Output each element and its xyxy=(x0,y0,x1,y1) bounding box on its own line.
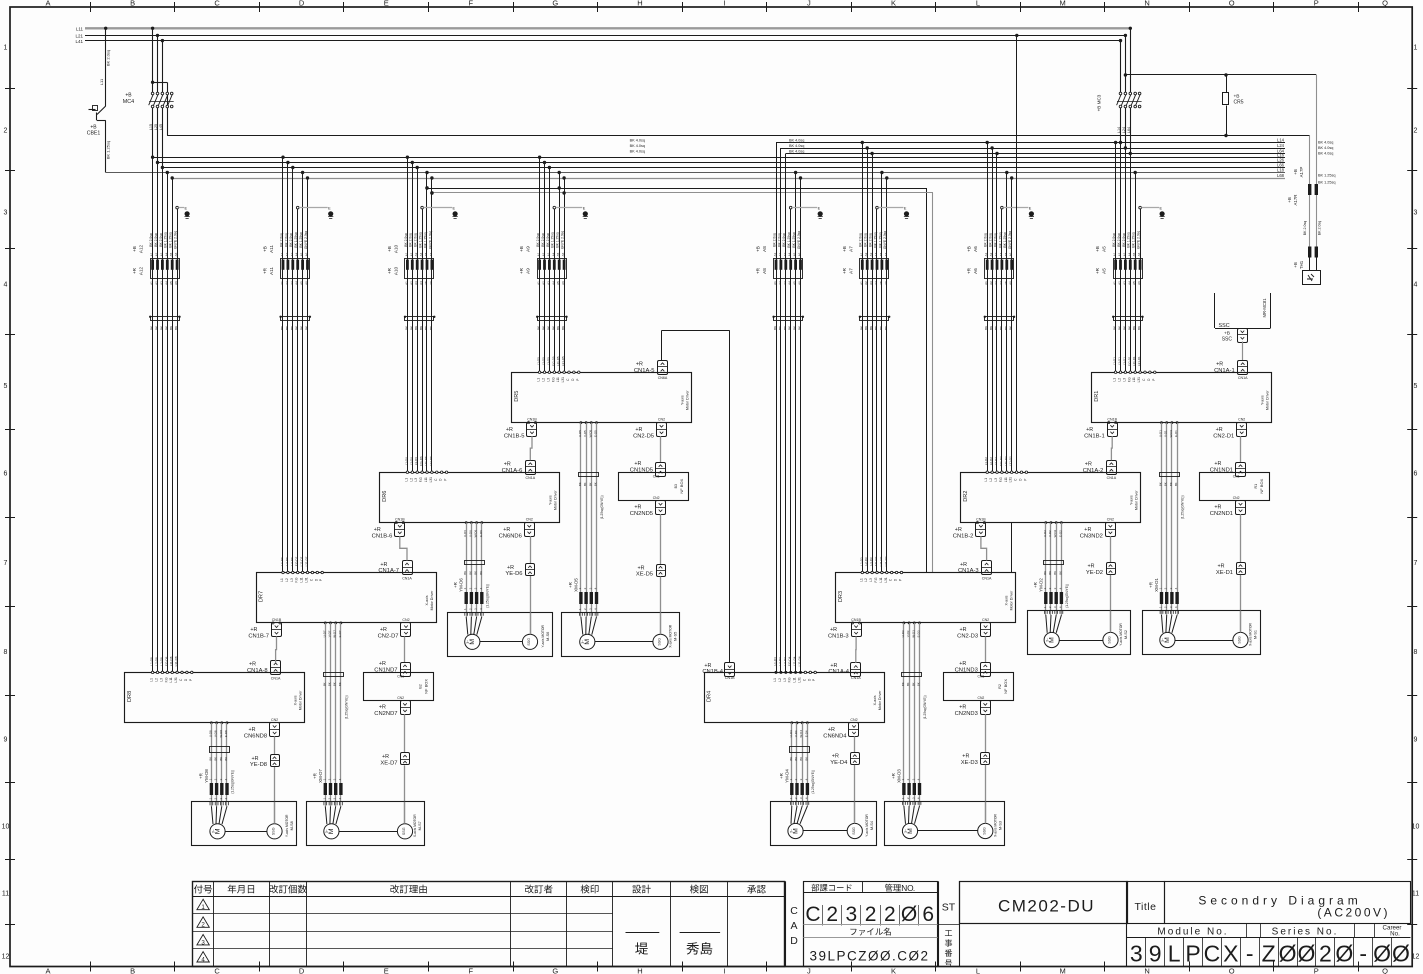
DR5 input pins xyxy=(538,371,540,373)
svg-text:BK 2.0sq: BK 2.0sq xyxy=(1318,221,1322,236)
svg-text:BK: BK xyxy=(1169,482,1173,486)
svg-text:L3-D7: L3-D7 xyxy=(290,557,294,566)
chain wire xyxy=(530,436,532,460)
chain wire xyxy=(400,536,407,560)
svg-text:L2: L2 xyxy=(285,578,289,582)
svg-text:BK: BK xyxy=(1164,482,1168,486)
svg-text:BK: BK xyxy=(474,571,478,575)
terminal strip A7 xyxy=(860,317,889,321)
svg-text:L1: L1 xyxy=(773,678,777,682)
svg-text:L45: L45 xyxy=(159,124,163,130)
svg-text:(1.25sq(GN/YE)): (1.25sq(GN/YE)) xyxy=(600,495,604,519)
svg-text:L3: L3 xyxy=(1122,378,1126,382)
svg-text:Motor Driver: Motor Driver xyxy=(430,590,434,611)
encoder lead-in M-S8 xyxy=(274,802,276,824)
svg-text:BK: BK xyxy=(578,482,582,486)
svg-text:BK 2.0sq: BK 2.0sq xyxy=(1112,233,1116,247)
svg-text:C: C xyxy=(790,905,798,917)
svg-text:E: E xyxy=(384,0,389,8)
svg-text:L11-D3: L11-D3 xyxy=(879,556,883,566)
svg-text:A1: A1 xyxy=(404,281,408,285)
svg-text:A4: A4 xyxy=(1127,252,1131,256)
svg-text:+R: +R xyxy=(506,427,513,433)
connector CN2ND3 xyxy=(981,701,991,715)
svg-text:BK 1.25sq: BK 1.25sq xyxy=(792,232,796,247)
svg-text:R1: R1 xyxy=(1254,484,1258,489)
svg-text:A5: A5 xyxy=(424,252,428,256)
motor lead-in M-S7 xyxy=(325,806,327,824)
svg-text:CN1B-2: CN1B-2 xyxy=(953,533,974,539)
svg-text:9: 9 xyxy=(1149,941,1162,967)
svg-text:L31: L31 xyxy=(884,577,888,583)
svg-text:BK: BK xyxy=(1053,571,1057,575)
svg-text:+R: +R xyxy=(249,727,256,733)
svg-text:SSG: SSG xyxy=(1108,636,1112,644)
DR1 connector CN1A xyxy=(1238,361,1248,375)
svg-text:E: E xyxy=(328,207,331,211)
title label cell xyxy=(1127,882,1165,924)
svg-text:L31: L31 xyxy=(429,477,433,483)
svg-text:A6: A6 xyxy=(561,281,565,285)
CAD code cell xyxy=(804,882,938,967)
earth symbol A10 xyxy=(453,211,458,216)
svg-text:A3: A3 xyxy=(290,252,294,256)
terminal block D4 xyxy=(790,747,810,753)
svg-text:+R: +R xyxy=(380,627,387,633)
svg-text:+R: +R xyxy=(1216,427,1223,433)
svg-text:A1: A1 xyxy=(859,252,863,256)
svg-text:CN1A: CN1A xyxy=(1238,376,1248,380)
svg-text:CN1B-7: CN1B-7 xyxy=(248,634,269,640)
svg-text:XM-D1: XM-D1 xyxy=(1154,578,1159,592)
svg-text:A1: A1 xyxy=(404,252,408,256)
svg-text:Ø: Ø xyxy=(1392,941,1410,967)
svg-text:CN2: CN2 xyxy=(658,418,665,422)
motor connector D2 xyxy=(1044,592,1047,604)
svg-text:A5: A5 xyxy=(556,252,560,256)
svg-text:L21: L21 xyxy=(75,34,83,39)
earth symbol A5 xyxy=(1160,211,1165,216)
svg-text:A5: A5 xyxy=(300,281,304,285)
svg-text:BK: BK xyxy=(901,682,905,686)
line L1x bus xyxy=(167,135,1310,137)
svg-text:+B: +B xyxy=(967,246,972,252)
svg-text:CN1A-8: CN1A-8 xyxy=(247,668,268,674)
earth node A12 xyxy=(176,206,179,209)
wire CN2 chain to E connector xyxy=(1110,536,1112,562)
svg-text:BK 1.25sq: BK 1.25sq xyxy=(294,232,298,247)
grid row ticks xyxy=(5,88,15,90)
svg-text:L1: L1 xyxy=(404,478,408,482)
svg-text:X-axis: X-axis xyxy=(425,595,429,605)
svg-text:BK: BK xyxy=(155,326,159,330)
svg-text:BK 1.25sq: BK 1.25sq xyxy=(1003,232,1007,247)
svg-text:+B: +B xyxy=(125,93,132,99)
svg-text:A6: A6 xyxy=(1137,252,1141,256)
svg-text:E-D3: E-D3 xyxy=(917,630,921,637)
svg-text:U-D6: U-D6 xyxy=(463,530,467,537)
svg-text:CN1B-1: CN1B-1 xyxy=(1084,433,1105,439)
svg-text:12: 12 xyxy=(1412,954,1420,961)
svg-text:D: D xyxy=(299,967,305,974)
revision table headers xyxy=(194,885,203,894)
encoder SSG M-S2 xyxy=(1103,632,1118,647)
svg-text:+R: +R xyxy=(198,773,203,779)
svg-text:+R: +R xyxy=(1214,505,1221,511)
svg-text:+R: +R xyxy=(312,773,317,779)
svg-text:L11: L11 xyxy=(1132,377,1136,382)
svg-text:A3: A3 xyxy=(159,252,163,256)
svg-text:BK: BK xyxy=(280,326,284,330)
svg-text:+R: +R xyxy=(249,662,256,668)
svg-text:3: 3 xyxy=(1414,210,1418,217)
motor M M-S6 xyxy=(465,634,480,649)
svg-text:A1: A1 xyxy=(280,281,284,285)
svg-text:10: 10 xyxy=(2,824,10,831)
svg-text:U-D7: U-D7 xyxy=(322,630,326,637)
DR6 bottom connectors xyxy=(395,522,397,524)
bus line L16 xyxy=(153,157,1285,159)
svg-text:+R: +R xyxy=(504,462,511,468)
svg-text:A3: A3 xyxy=(290,281,294,285)
svg-text:BK 1.25sq: BK 1.25sq xyxy=(787,232,791,247)
svg-text:L3-D8: L3-D8 xyxy=(159,657,163,666)
svg-text:Y-axis MOTOR: Y-axis MOTOR xyxy=(1119,623,1123,646)
motor lead-in M-S1 xyxy=(1162,615,1163,633)
svg-text:M: M xyxy=(1164,637,1171,643)
svg-text:M: M xyxy=(1059,967,1065,974)
svg-text:YE-D6: YE-D6 xyxy=(505,571,522,577)
svg-text:2: 2 xyxy=(826,903,838,926)
svg-text:A2: A2 xyxy=(864,252,868,256)
svg-text:A6: A6 xyxy=(798,281,802,285)
svg-text:A1: A1 xyxy=(773,281,777,285)
svg-text:-: - xyxy=(1359,941,1367,967)
svg-text:BK: BK xyxy=(1048,571,1052,575)
DR5 bottom connectors xyxy=(527,422,529,424)
svg-text:Motor Driver: Motor Driver xyxy=(1266,390,1270,411)
svg-text:W-D2: W-D2 xyxy=(1053,529,1057,537)
svg-text:+R: +R xyxy=(1095,267,1100,274)
encoder SSG M-S8 xyxy=(267,824,282,839)
svg-text:A: A xyxy=(45,0,50,8)
svg-text:-: - xyxy=(1246,941,1254,967)
svg-text:Ø: Ø xyxy=(1335,941,1353,967)
svg-text:BK: BK xyxy=(414,326,418,330)
svg-text:BK 2.0sq: BK 2.0sq xyxy=(536,233,540,247)
svg-text:+B MC3: +B MC3 xyxy=(1097,94,1102,111)
svg-text:M-S4: M-S4 xyxy=(870,821,874,830)
wire to encoder SSG xyxy=(660,577,662,635)
svg-text:A6: A6 xyxy=(561,252,565,256)
svg-text:G: G xyxy=(552,967,558,974)
svg-text:+R: +R xyxy=(1214,461,1221,467)
title block revision table xyxy=(193,882,785,967)
earth symbol A7 xyxy=(904,211,909,216)
svg-text:BK: BK xyxy=(322,682,326,686)
svg-text:CN6ND4: CN6ND4 xyxy=(823,734,847,740)
svg-text:L3: L3 xyxy=(546,378,550,382)
svg-text:A2: A2 xyxy=(409,252,413,256)
svg-text:A4: A4 xyxy=(551,252,555,256)
bus line L14 xyxy=(776,142,1285,144)
svg-text:P: P xyxy=(444,479,448,481)
svg-text:A4: A4 xyxy=(551,281,555,285)
svg-text:+R: +R xyxy=(959,705,966,711)
svg-text:F.G: F.G xyxy=(164,677,168,682)
earth symbol A9 xyxy=(583,211,588,216)
svg-text:CN6A: CN6A xyxy=(658,376,668,380)
svg-text:BK 2.0sq: BK 2.0sq xyxy=(864,233,868,247)
svg-text:BK 4.0sq: BK 4.0sq xyxy=(630,139,645,143)
wire M to SSG M-S1 xyxy=(1175,640,1233,642)
svg-text:TH1: TH1 xyxy=(1299,260,1304,269)
svg-text:+R: +R xyxy=(967,267,972,274)
motor box M-S7 xyxy=(307,802,425,846)
bus line L18 xyxy=(106,172,1285,174)
svg-text:+R: +R xyxy=(252,756,259,762)
svg-text:W-D6: W-D6 xyxy=(474,529,478,537)
svg-text:L68: L68 xyxy=(1277,173,1285,178)
svg-text:CN1B: CN1B xyxy=(725,676,735,680)
earth node A5 xyxy=(1139,206,1142,209)
svg-text:B3: B3 xyxy=(674,484,678,488)
DR4 connector CN1A xyxy=(725,663,735,677)
svg-text:L31-D2: L31-D2 xyxy=(1009,456,1013,466)
svg-text:C: C xyxy=(805,903,820,926)
feed bundle A9 wires xyxy=(538,156,541,159)
feed bundle A12 wires xyxy=(151,156,154,159)
svg-text:3~: 3~ xyxy=(466,640,470,644)
svg-text:2: 2 xyxy=(1414,128,1418,135)
svg-text:Q: Q xyxy=(1382,967,1388,974)
svg-text:A5: A5 xyxy=(793,252,797,256)
motor driver DR1 xyxy=(1092,373,1272,423)
connector CN2ND1 xyxy=(1236,501,1246,515)
svg-text:+B: +B xyxy=(756,246,761,252)
svg-text:CN1B-3: CN1B-3 xyxy=(828,634,849,640)
svg-text:P: P xyxy=(1314,967,1319,974)
svg-text:BK: BK xyxy=(551,326,555,330)
svg-text:BK: BK xyxy=(917,682,921,686)
svg-text:L25: L25 xyxy=(154,124,158,130)
svg-text:BK 2.0sq: BK 2.0sq xyxy=(106,50,111,66)
svg-text:M: M xyxy=(214,828,221,834)
DR7 bottom connectors xyxy=(272,622,274,624)
earth symbol A6 xyxy=(1029,211,1034,216)
svg-text:A2: A2 xyxy=(1118,281,1122,285)
svg-text:M: M xyxy=(469,639,476,645)
svg-text:BK: BK xyxy=(793,326,797,330)
svg-text:V-D1: V-D1 xyxy=(1164,430,1168,437)
svg-text:Z: Z xyxy=(1262,941,1276,967)
svg-text:K: K xyxy=(891,967,896,974)
svg-text:Ø: Ø xyxy=(1279,941,1297,967)
svg-text:BK 2.0sq: BK 2.0sq xyxy=(772,233,776,247)
svg-text:A3: A3 xyxy=(159,281,163,285)
svg-text:+R: +R xyxy=(380,562,387,568)
svg-text:BK 1.25sq: BK 1.25sq xyxy=(106,141,111,159)
svg-text:L11-D1: L11-D1 xyxy=(1132,356,1136,366)
svg-text:CN2: CN2 xyxy=(982,618,989,622)
svg-text:+R: +R xyxy=(828,727,835,733)
svg-text:L41: L41 xyxy=(75,39,83,44)
motor lead-in M-S6 xyxy=(466,617,468,635)
svg-text:U-D4: U-D4 xyxy=(789,730,793,737)
noise filter NF BOX R1 xyxy=(1200,473,1270,501)
svg-text:BK 1.25sq: BK 1.25sq xyxy=(1318,174,1336,178)
wire M to SSG M-S3 xyxy=(918,830,978,832)
svg-text:BK: BK xyxy=(989,326,993,330)
svg-text:Motor Driver: Motor Driver xyxy=(686,390,690,411)
svg-text:L1-D5: L1-D5 xyxy=(537,357,541,366)
svg-text:A4: A4 xyxy=(164,281,168,285)
svg-text:L24: L24 xyxy=(1122,127,1126,133)
svg-text:CN2ND5: CN2ND5 xyxy=(630,511,653,517)
svg-text:BK: BK xyxy=(419,326,423,330)
svg-text:A11: A11 xyxy=(269,267,274,275)
svg-text:GNYE 2.0sq: GNYE 2.0sq xyxy=(1008,231,1012,249)
terminal block D7 xyxy=(324,673,344,677)
terminal strip A5 xyxy=(1114,317,1143,321)
svg-text:A6: A6 xyxy=(305,252,309,256)
svg-text:BK 2.0sq: BK 2.0sq xyxy=(541,233,545,247)
svg-text:A3: A3 xyxy=(1122,252,1126,256)
svg-text:A6: A6 xyxy=(174,281,178,285)
svg-text:BK: BK xyxy=(537,326,541,330)
feed bundle A5 wires xyxy=(1114,141,1117,144)
svg-text:U-D8: U-D8 xyxy=(208,730,212,737)
wire to encoder SSG xyxy=(1240,575,1242,633)
wire to encoder SSG xyxy=(985,765,987,823)
svg-text:A2: A2 xyxy=(1118,252,1122,256)
svg-text:BK: BK xyxy=(290,326,294,330)
svg-text:U-D3: U-D3 xyxy=(901,630,905,637)
svg-text:W-D8: W-D8 xyxy=(219,730,223,738)
svg-text:CN1A: CN1A xyxy=(982,577,992,581)
bus line L66 xyxy=(162,167,1285,169)
svg-text:M-S5: M-S5 xyxy=(674,632,678,641)
svg-text:BK: BK xyxy=(799,757,803,761)
encoder lead-in M-S7 xyxy=(404,802,406,824)
svg-text:8: 8 xyxy=(4,649,8,656)
svg-text:O: O xyxy=(1229,967,1235,974)
svg-text:BK 2.0sq: BK 2.0sq xyxy=(409,233,413,247)
svg-text:CN2: CN2 xyxy=(397,696,404,700)
svg-text:E: E xyxy=(904,207,907,211)
wire CN1B-4 riser xyxy=(729,331,731,664)
svg-text:L11: L11 xyxy=(76,27,84,32)
svg-text:BK 1.25sq: BK 1.25sq xyxy=(1318,181,1336,185)
svg-text:XM-D5: XM-D5 xyxy=(573,578,578,592)
wire MC3 tap to CR5 line xyxy=(1124,73,1127,76)
svg-text:A1: A1 xyxy=(859,281,863,285)
svg-text:BK: BK xyxy=(429,326,433,330)
fuse block A6 xyxy=(985,259,1014,279)
svg-text:G: G xyxy=(552,0,558,8)
svg-text:A4: A4 xyxy=(999,281,1003,285)
svg-text:DR1: DR1 xyxy=(1094,391,1100,402)
svg-text:CN2: CN2 xyxy=(402,618,409,622)
svg-text:L3: L3 xyxy=(159,678,163,682)
svg-text:BK: BK xyxy=(879,326,883,330)
svg-text:L2: L2 xyxy=(989,478,993,482)
svg-text:D: D xyxy=(790,935,798,947)
svg-text:P: P xyxy=(812,679,816,681)
svg-text:BK 4.0sq: BK 4.0sq xyxy=(789,139,804,143)
svg-text:CN1: CN1 xyxy=(978,675,985,679)
svg-text:BK: BK xyxy=(150,326,154,330)
svg-text:L11: L11 xyxy=(793,677,797,682)
wire CN6 chain to E connector xyxy=(530,536,532,563)
svg-text:A2: A2 xyxy=(989,281,993,285)
svg-text:D: D xyxy=(299,0,305,8)
svg-text:L31-D7: L31-D7 xyxy=(305,556,309,566)
wire CN2-D7 to CN1ND7 xyxy=(404,636,406,662)
svg-text:J: J xyxy=(807,0,811,8)
svg-text:BK 4.0sq: BK 4.0sq xyxy=(1318,141,1333,145)
svg-text:A2: A2 xyxy=(155,281,159,285)
svg-text:P: P xyxy=(1023,479,1027,481)
svg-text:M-S8: M-S8 xyxy=(290,821,294,830)
svg-text:(1.25sq(GN/YE)): (1.25sq(GN/YE)) xyxy=(1181,495,1185,519)
wire to encoder SSG xyxy=(274,767,276,825)
fuse block A11 xyxy=(281,259,310,279)
svg-text:+R: +R xyxy=(1088,564,1095,570)
svg-text:F.G-D2: F.G-D2 xyxy=(999,456,1003,466)
svg-text:2: 2 xyxy=(1319,941,1332,967)
svg-text:Motor Driver: Motor Driver xyxy=(1010,590,1014,611)
svg-text:A3: A3 xyxy=(783,252,787,256)
svg-text:NF BOX: NF BOX xyxy=(679,478,684,493)
CAD column xyxy=(785,881,787,966)
wire to encoder SSG xyxy=(854,765,856,823)
svg-text:GNYE 2.0sq: GNYE 2.0sq xyxy=(1137,231,1141,249)
svg-text:(1.25sq(GN/YE)): (1.25sq(GN/YE)) xyxy=(231,770,235,794)
svg-text:F.G: F.G xyxy=(295,577,299,582)
ST column xyxy=(938,881,940,966)
svg-text:F.G-D8: F.G-D8 xyxy=(164,656,168,666)
svg-text:BK 2.0sq: BK 2.0sq xyxy=(989,233,993,247)
motor driver DR8 xyxy=(125,673,305,723)
svg-text:YE-D4: YE-D4 xyxy=(830,760,848,766)
svg-text:BK 2.0sq: BK 2.0sq xyxy=(782,233,786,247)
earth symbol A11 xyxy=(328,211,333,216)
svg-text:BK: BK xyxy=(906,682,910,686)
wire M to SSG M-S8 xyxy=(225,831,267,833)
svg-text:M: M xyxy=(1049,637,1056,643)
svg-text:BK: BK xyxy=(305,326,309,330)
svg-text:NF BOX: NF BOX xyxy=(1003,679,1008,694)
svg-text:1: 1 xyxy=(201,904,205,911)
svg-text:3~: 3~ xyxy=(211,829,215,833)
svg-text:BK 4.0sq: BK 4.0sq xyxy=(789,144,804,148)
svg-text:A: A xyxy=(790,920,797,932)
svg-text:A6: A6 xyxy=(429,281,433,285)
motor M M-S5 xyxy=(580,634,595,649)
svg-text:8: 8 xyxy=(1414,649,1418,656)
connector CN2ND7 xyxy=(401,701,411,715)
svg-text:+R: +R xyxy=(960,562,967,568)
svg-text:P: P xyxy=(576,379,580,381)
wire CN2-D3 to CN1ND3 xyxy=(985,636,987,662)
module series row xyxy=(959,923,1410,925)
terminal strip A11 xyxy=(281,317,310,321)
svg-text:BK: BK xyxy=(333,682,337,686)
svg-text:V-D5: V-D5 xyxy=(583,430,587,437)
svg-text:11: 11 xyxy=(2,891,9,898)
koji bangou column xyxy=(945,930,952,936)
